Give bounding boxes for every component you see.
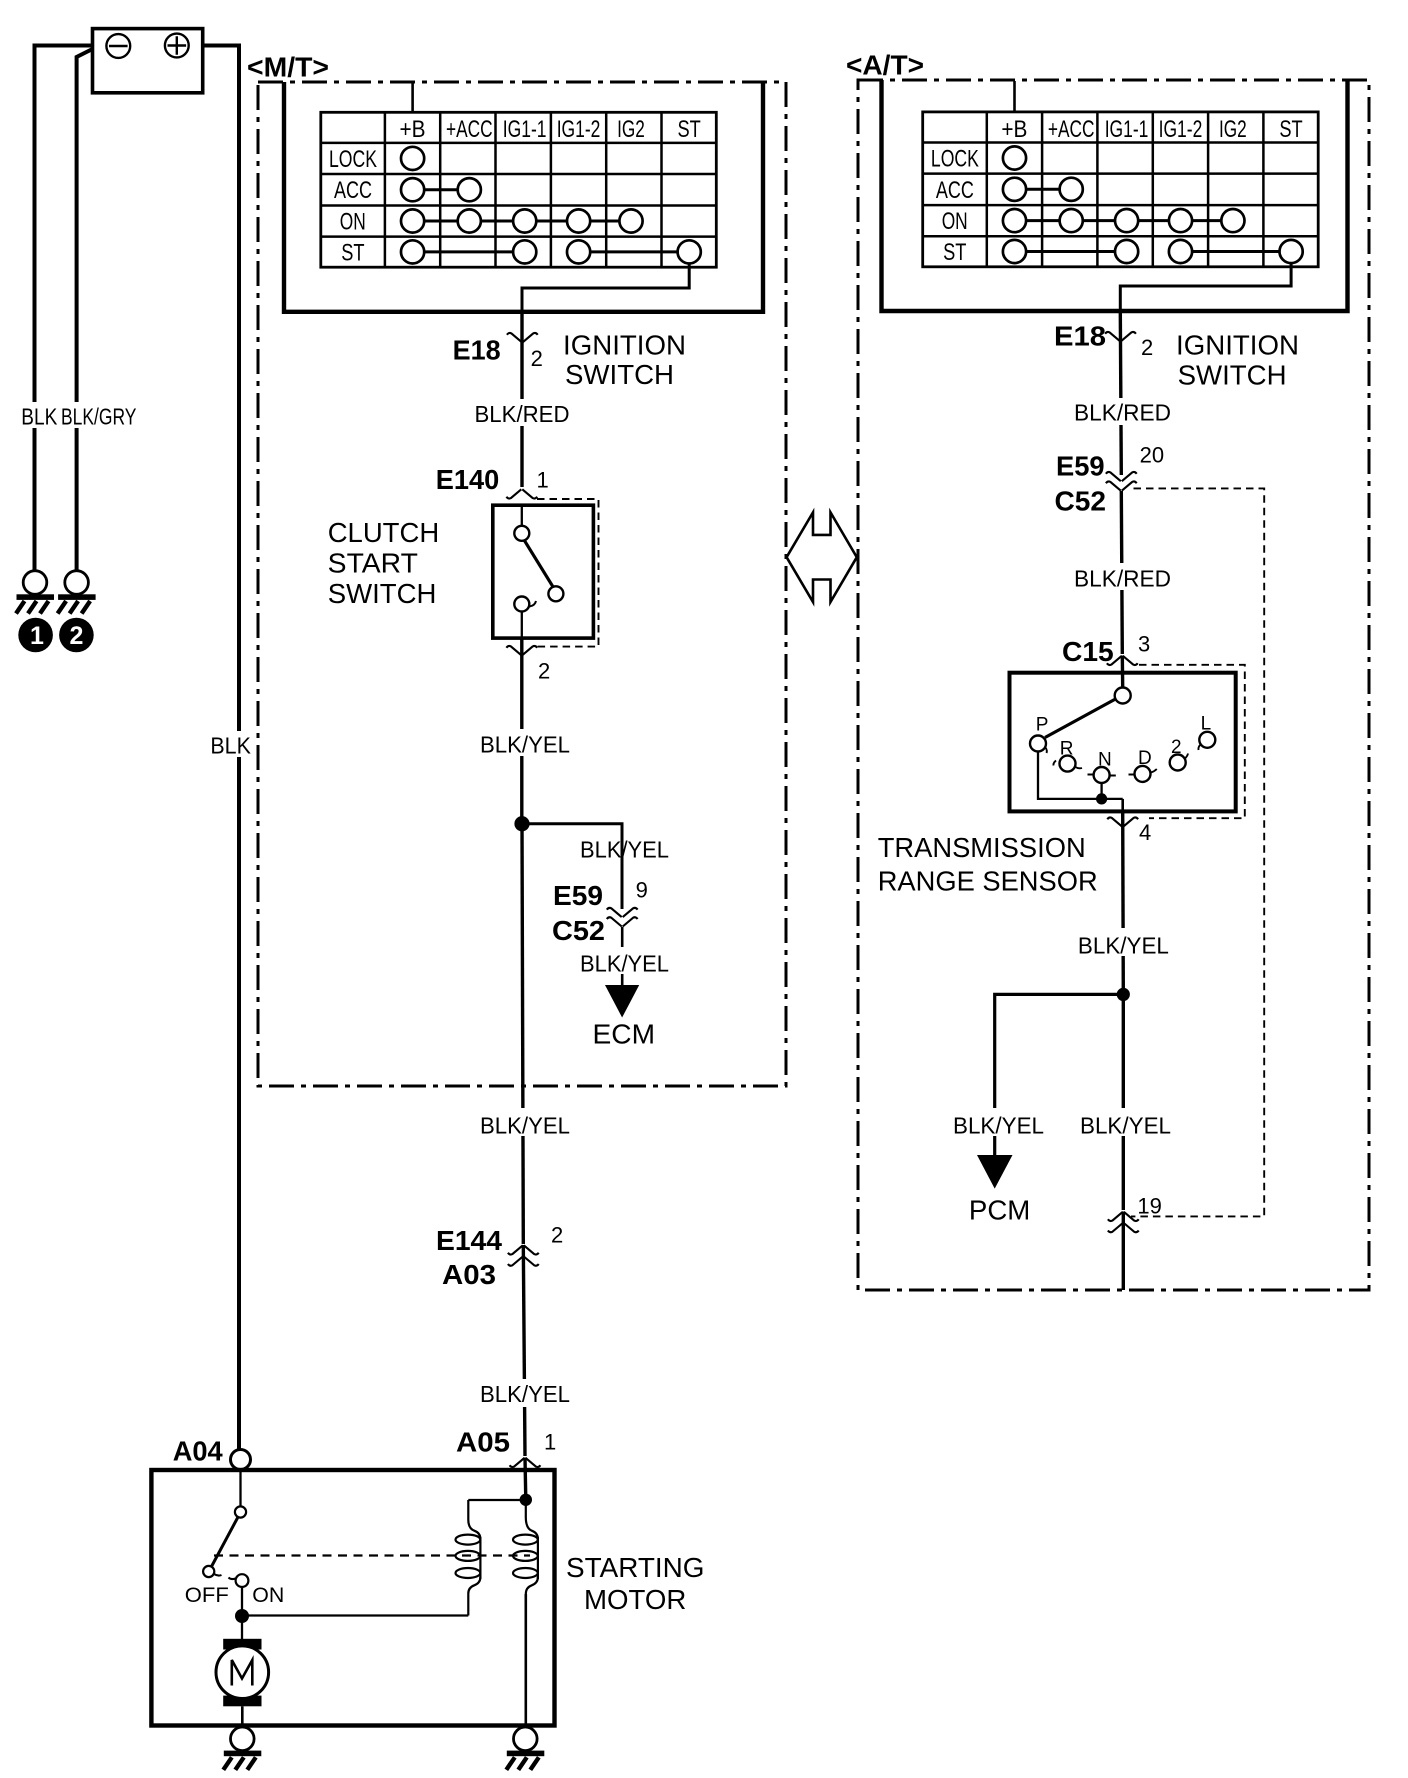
svg-text:BLK/YEL: BLK/YEL [580,951,669,977]
A/T region dashed box [858,80,1369,1290]
connector E59/C52 pin 20 [1106,472,1137,481]
wire junction to E144 connector [522,824,523,1244]
svg-text:E59: E59 [1056,451,1105,482]
svg-text:BLK/YEL: BLK/YEL [1078,933,1169,959]
wire hold-in coil to ground [524,1594,527,1726]
svg-text:1: 1 [544,1430,556,1455]
C15 connector dashed boundary [1139,665,1245,818]
connector C15 pin 3 [1107,656,1138,665]
svg-text:BLK/RED: BLK/RED [1074,400,1171,426]
junction dot motor node [235,1609,249,1623]
svg-text:IGNITION: IGNITION [563,330,686,361]
ECM arrow [605,985,639,1018]
svg-text:C52: C52 [1055,486,1107,517]
wire label BLK (battery positive) [206,731,255,757]
svg-text:IGNITION: IGNITION [1176,330,1299,361]
motor M1 [216,1639,269,1726]
ground G2 [58,571,96,614]
svg-text:4: 4 [1139,820,1151,845]
svg-text:ON: ON [252,1584,284,1607]
wire connector to ECM arrow [621,927,624,985]
ground id 2 [59,618,94,653]
svg-text:A04: A04 [173,1436,223,1467]
svg-text:TRANSMISSION: TRANSMISSION [878,832,1086,863]
connector pin 19 [1108,1212,1139,1221]
svg-text:OFF: OFF [185,1584,229,1607]
junction dot M/T [514,816,529,831]
ground id 1 [18,618,53,653]
connector pin 4 (sensor output) [1107,817,1138,826]
wire label BLK/YEL (PCM branch) [948,1108,1050,1136]
svg-text:2: 2 [531,346,543,371]
svg-text:A03: A03 [442,1259,496,1290]
connector E59/C52 pin 9 [607,908,638,917]
connector A04 [231,1450,251,1470]
connector A05 pin 1 [510,1458,541,1467]
svg-text:BLK: BLK [21,404,58,430]
svg-text:ECM: ECM [593,1019,656,1050]
svg-text:C52: C52 [552,915,605,946]
wire clutch switch to junction [520,638,523,824]
wire label BLK/YEL (M/T mid) [473,1108,577,1136]
wire label BLK/RED (M/T) [469,399,575,426]
svg-text:2: 2 [70,622,84,650]
wire battery negative to ground 2 [77,49,93,570]
svg-text:L: L [1201,714,1212,735]
wire label BLK/YEL (M/T lower) [473,1379,577,1407]
starting motor box [151,1470,554,1726]
svg-text:BLK/YEL: BLK/YEL [1080,1113,1171,1139]
svg-text:BLK/RED: BLK/RED [475,401,570,427]
wire battery positive to A04 [203,46,239,1450]
svg-text:D: D [1138,748,1152,769]
C52 connector dashed boundary [1131,488,1264,1216]
svg-text:E18: E18 [1054,321,1106,352]
svg-text:2: 2 [1141,335,1153,360]
M/T A/T equivalence arrow [787,512,857,602]
svg-text:9: 9 [636,878,648,903]
ignition switch table A/T [923,112,1318,267]
connector pin 2 below clutch start switch [506,646,537,655]
svg-text:BLK/YEL: BLK/YEL [480,1381,570,1407]
relay contact OFF [203,1566,214,1577]
wire A05 into starting motor box [523,1458,527,1501]
M/T region dashed box [258,82,786,1086]
svg-text:A05: A05 [456,1427,510,1458]
relay contact ON [236,1574,249,1587]
battery [93,29,203,93]
wire motor node to pull-in coil [242,1614,468,1616]
wire label BLK/YEL (to ECM) [575,947,675,974]
connector E18 pin 2 (M/T) [507,333,538,342]
svg-text:BLK: BLK [210,733,251,759]
wire junction to pin 19 [1122,994,1125,1210]
svg-text:BLK/YEL: BLK/YEL [480,732,570,758]
svg-text:BLK/YEL: BLK/YEL [580,837,669,863]
branch wire to PCM arrow [995,994,1124,1155]
relay switch pivot [235,1506,246,1517]
svg-text:RANGE SENSOR: RANGE SENSOR [878,866,1098,897]
svg-text:3: 3 [1138,632,1150,657]
wire sensor to junction A/T [1121,811,1125,994]
starting motor ground left [223,1727,261,1770]
svg-text:BLK/RED: BLK/RED [1074,566,1171,592]
svg-text:PCM: PCM [969,1195,1030,1226]
wire A04 to relay switch pivot [239,1470,241,1507]
svg-text:2: 2 [1171,737,1182,758]
svg-text:20: 20 [1140,443,1164,468]
wire E18 to E140 M/T [520,312,523,487]
wire battery negative to ground 1 [35,46,93,571]
svg-text:19: 19 [1137,1194,1161,1219]
hold-in coil (right) [513,1505,538,1600]
svg-text:C15: C15 [1062,636,1114,667]
svg-text:P: P [1036,715,1049,736]
wire E59 to C15 [1121,491,1122,654]
wire label BLK (ground 1) [17,402,141,428]
svg-text:BLK/YEL: BLK/YEL [953,1113,1044,1139]
svg-text:E18: E18 [453,335,501,366]
wire label BLK/YEL (A/T lower) [1074,1108,1178,1136]
wire ST output to E18 A/T [1120,263,1291,311]
svg-text:<M/T>: <M/T> [247,52,329,83]
relay switch blade [212,1517,239,1567]
wire label BLK/YEL (A/T upper) [1072,928,1175,956]
svg-text:N: N [1098,750,1112,771]
svg-text:1: 1 [30,622,44,650]
svg-text:2: 2 [551,1223,563,1248]
wire ST output to E18 M/T [522,264,689,313]
svg-text:BLK/GRY: BLK/GRY [61,404,136,430]
svg-text:SWITCH: SWITCH [565,359,674,390]
svg-text:E140: E140 [436,464,500,495]
svg-text:2: 2 [538,659,550,684]
svg-text:E59: E59 [553,880,603,911]
svg-text:<A/T>: <A/T> [846,50,924,81]
starting motor ground right [506,1727,544,1770]
svg-text:R: R [1060,739,1074,760]
svg-text:1: 1 [537,468,549,493]
ignition switch outline M/T [284,82,763,312]
wire label BLK/RED (A/T lower) [1068,563,1176,590]
junction dot A05 coil node [520,1494,532,1506]
svg-text:BLK/YEL: BLK/YEL [480,1113,570,1139]
junction dot A/T [1117,988,1130,1001]
wire label BLK/YEL (M/T upper) [474,729,576,756]
svg-text:STARTING: STARTING [566,1552,705,1583]
ground G1 [16,571,54,614]
ignition switch outline A/T [882,80,1348,311]
wire node to pull-in coil top [468,1499,526,1501]
wire C15 into sensor [1121,656,1125,688]
transmission range sensor [1010,673,1236,812]
svg-text:SWITCH: SWITCH [328,578,437,609]
wire +B stub A/T [1013,81,1016,112]
svg-text:CLUTCH: CLUTCH [328,517,440,548]
wire pin 19 to A/T boundary [1122,1212,1125,1291]
wire motor node to motor [241,1616,243,1639]
svg-text:START: START [328,548,418,579]
svg-text:SWITCH: SWITCH [1178,360,1287,391]
PCM arrow [977,1155,1013,1189]
pull-in coil (left) [456,1500,481,1616]
mechanical link dashed line [214,1554,530,1556]
ignition switch table M/T [321,112,717,267]
svg-text:MOTOR: MOTOR [584,1584,686,1615]
connector E144/A03 pin 2 [508,1245,539,1254]
wire E18 to E59 A/T [1120,311,1121,475]
wire A03 to A05 [523,1245,525,1456]
clutch start switch [493,505,594,638]
connector E18 pin 2 (A/T) [1105,332,1136,341]
connector E140 pin 1 [506,489,537,498]
wire ON contact to motor node [241,1587,243,1610]
clutch start switch connector dashed box [537,499,599,647]
wire label BLK/RED (A/T upper) [1068,398,1176,425]
svg-text:E144: E144 [436,1225,502,1256]
wire +B stub M/T [411,83,414,112]
branch wire to ECM connector [522,824,622,909]
